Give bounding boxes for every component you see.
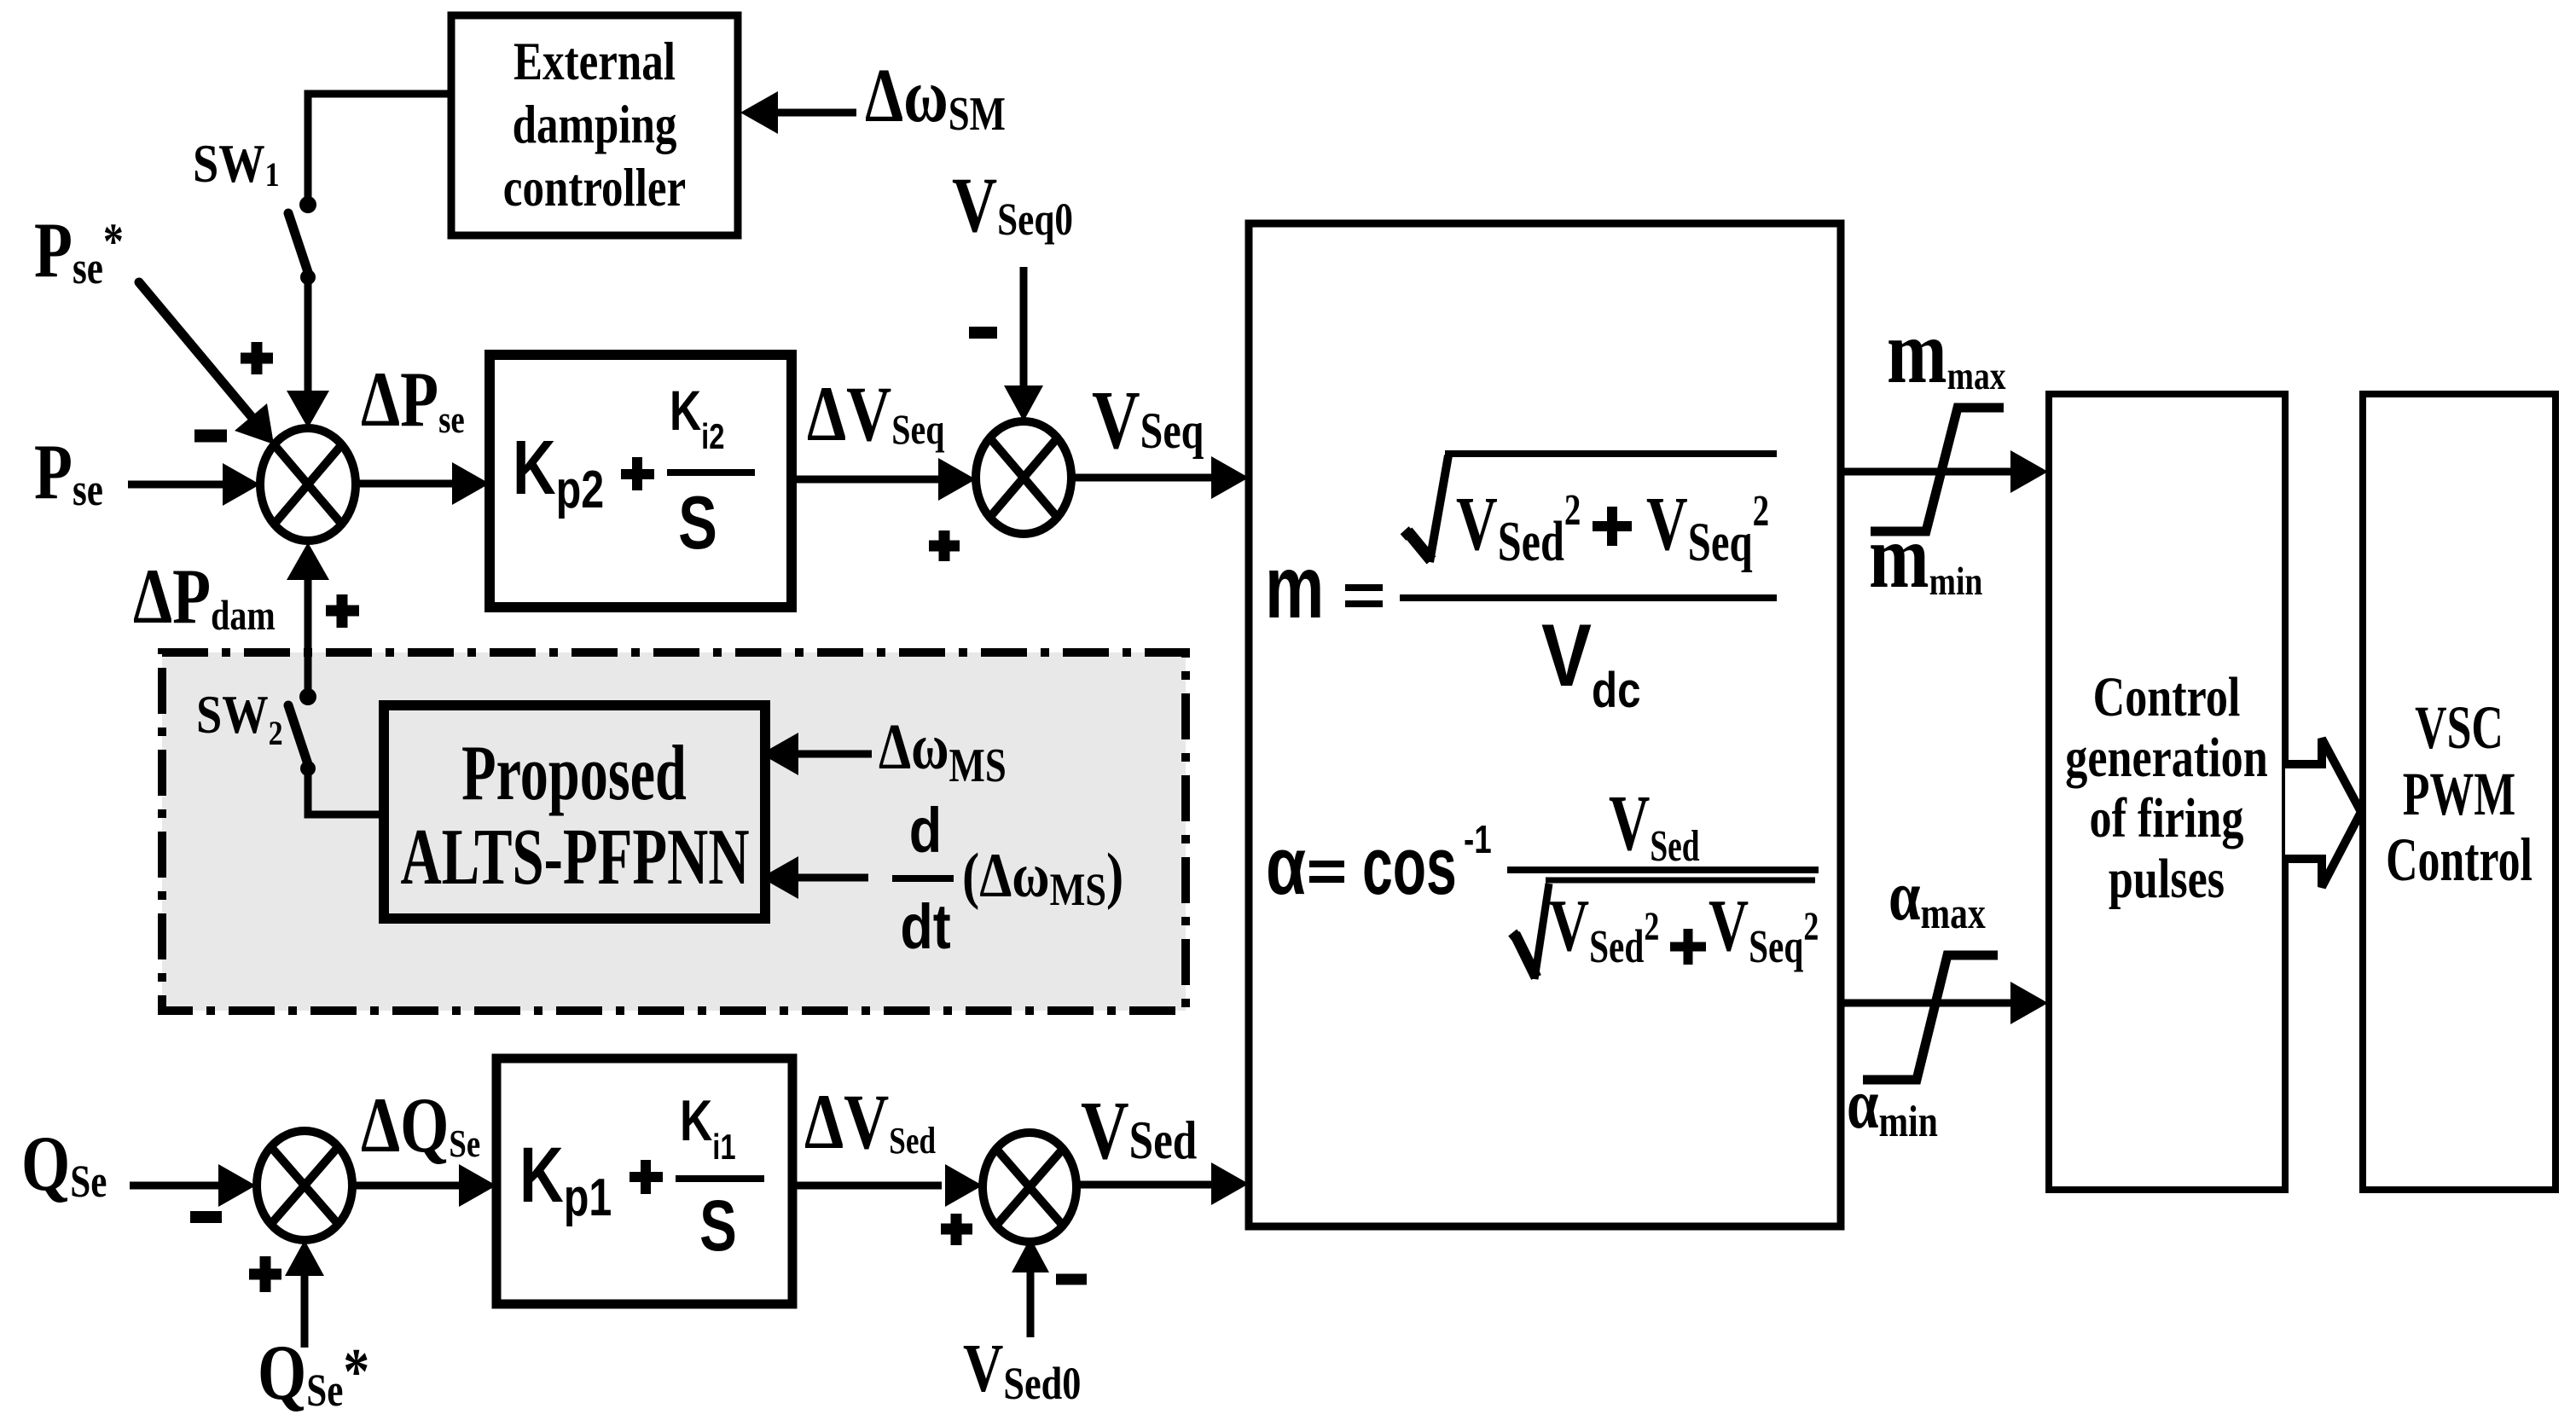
svg-text:VSed: VSed [1081, 1085, 1197, 1177]
svg-text:mmax: mmax [1887, 301, 2006, 402]
svg-text:Pse*: Pse* [34, 207, 124, 294]
svg-text:of firing: of firing [2089, 786, 2243, 849]
svg-text:ΔPse: ΔPse [361, 356, 465, 443]
svg-text:VSC: VSC [2415, 693, 2503, 762]
svg-text:ΔVSeq: ΔVSeq [807, 371, 945, 458]
svg-text:QSe: QSe [21, 1121, 107, 1208]
svg-text:-1: -1 [1464, 817, 1492, 861]
svg-text:d: d [909, 795, 942, 866]
svg-text:QSe*: QSe* [258, 1330, 369, 1417]
svg-text:generation: generation [2065, 726, 2267, 788]
svg-text:dt: dt [900, 891, 950, 962]
svg-text:Control: Control [2386, 826, 2532, 894]
svg-text:α: α [1266, 820, 1306, 912]
svg-text:pulses: pulses [2109, 847, 2225, 909]
svg-text:Proposed: Proposed [461, 731, 687, 817]
svg-text:ΔωSM: ΔωSM [865, 52, 1006, 140]
svg-text:Control: Control [2093, 665, 2241, 727]
svg-text:External: External [513, 32, 676, 91]
svg-text:SW1: SW1 [193, 133, 280, 194]
svg-text:damping: damping [513, 96, 677, 154]
svg-text:ΔVSed: ΔVSed [804, 1079, 936, 1166]
svg-text:VSed0: VSed0 [963, 1330, 1081, 1409]
svg-text:VSeq: VSeq [1092, 374, 1204, 467]
svg-text:m: m [1265, 538, 1324, 636]
svg-text:ΔPdam: ΔPdam [133, 554, 276, 641]
svg-text:controller: controller [503, 159, 686, 217]
svg-text:ΔQSe: ΔQSe [361, 1082, 480, 1169]
svg-text:PWM: PWM [2403, 760, 2515, 828]
svg-text:ALTS-PFPNN: ALTS-PFPNN [400, 812, 749, 901]
svg-text:S: S [678, 481, 717, 565]
svg-text:αmax: αmax [1888, 856, 1986, 938]
svg-text:cos: cos [1362, 820, 1457, 912]
svg-text:Pse: Pse [34, 429, 103, 516]
svg-text:mmin: mmin [1869, 506, 1983, 606]
svg-text:S: S [699, 1185, 737, 1266]
svg-text:VSeq0: VSeq0 [952, 162, 1073, 249]
